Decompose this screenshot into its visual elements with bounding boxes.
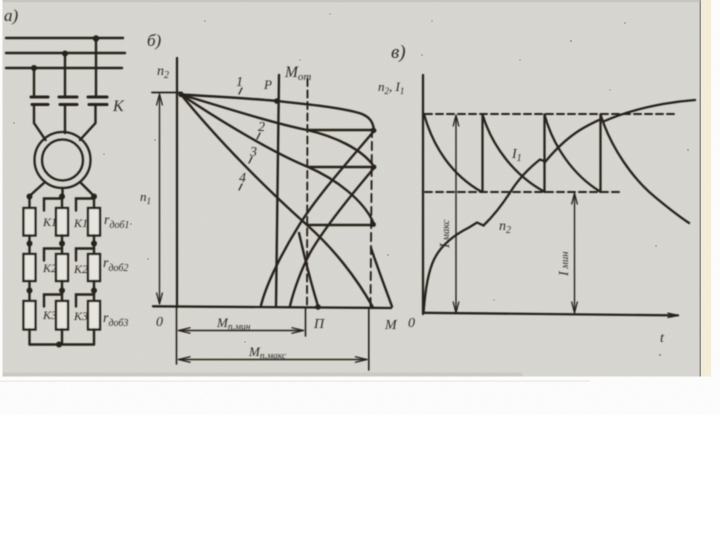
contact K3 left arm <box>44 295 62 307</box>
M p.max end bar <box>368 308 370 370</box>
svg-text:3: 3 <box>249 145 257 160</box>
current decay 4 final <box>601 115 690 224</box>
wire contact3 to motor <box>80 106 96 141</box>
wire node A1 to R1a <box>28 197 30 209</box>
dimension M p.min line <box>179 330 304 332</box>
scan right edge line <box>700 0 702 377</box>
wire R2b to node B3 <box>61 281 63 301</box>
junction dot knee1 <box>372 128 377 133</box>
wire phase B drop <box>64 54 66 96</box>
x-axis arrowhead t <box>668 313 678 317</box>
svg-text:Р: Р <box>263 77 272 92</box>
scan speckles <box>13 13 689 356</box>
svg-text:2: 2 <box>258 120 265 135</box>
node C1 <box>91 194 97 200</box>
dimension I min arrowhead up <box>572 193 578 204</box>
svg-text:а): а) <box>4 6 19 25</box>
dimension I min arrowhead down <box>572 302 578 313</box>
curve 3 rheostat characteristic <box>181 95 374 225</box>
node B1 <box>59 194 65 200</box>
curve 3 lower branch <box>299 233 318 306</box>
curve 4 rheostat characteristic <box>181 95 373 307</box>
current decay 1 <box>424 114 481 192</box>
dimension I max line <box>455 117 457 311</box>
resistor R2c <box>88 254 100 281</box>
dimension n1 line <box>159 96 161 302</box>
supply line L3 <box>6 67 122 69</box>
resistor R3b <box>56 301 68 330</box>
current decay 2 <box>483 115 545 192</box>
svg-text:0: 0 <box>408 316 415 331</box>
wire R3b to bus <box>61 330 63 345</box>
dashed line P (M p.min) <box>306 79 309 306</box>
contactor K contact 2 <box>59 97 77 105</box>
pointer tick 4 <box>239 184 242 190</box>
curve 1 natural characteristic <box>181 95 374 131</box>
svg-text:К3: К3 <box>42 308 57 322</box>
junction dot on L1 <box>93 35 99 41</box>
line Mot vertical <box>276 75 279 306</box>
pointer tick 1 <box>239 88 242 94</box>
junction dot knee3 <box>371 222 376 227</box>
motor M rotor circle <box>42 140 83 181</box>
node A1 <box>27 194 33 200</box>
axis n2 (y-axis of chart b) <box>176 58 178 307</box>
wire R1b to node B2 <box>61 236 63 255</box>
resistor R2b <box>56 254 68 281</box>
wire R2a to node A3 <box>28 281 30 301</box>
svg-text:К1: К1 <box>73 216 88 230</box>
svg-text:в): в) <box>391 42 406 63</box>
svg-text:М: М <box>384 318 398 333</box>
curve 1 lower branch <box>261 131 374 306</box>
resistor R2a <box>24 254 36 281</box>
node P axis dot <box>315 304 321 310</box>
bottom star bus <box>30 343 95 345</box>
svg-text:К2: К2 <box>42 261 57 275</box>
M p.min end bar <box>305 308 307 336</box>
dimension M p.max right arrowhead <box>356 357 368 363</box>
wire contact1 to motor <box>34 106 46 141</box>
jump H2 <box>309 166 375 168</box>
resistor R1c <box>88 208 100 236</box>
dimension n1 arrowhead up <box>157 94 163 105</box>
motor M stator circle <box>35 132 91 188</box>
dimension I max arrowhead up <box>453 115 459 126</box>
dimension M p.max left arrowhead <box>179 357 191 363</box>
dimension n1 arrowhead down <box>157 293 163 304</box>
dimension M p.min right arrowhead <box>292 328 304 334</box>
curve 2 lower branch <box>290 168 374 306</box>
wire node C1 to R1c <box>93 197 95 209</box>
scan bottom faint line <box>0 381 590 382</box>
jump H3 <box>308 224 374 226</box>
dimension I min line <box>574 195 576 311</box>
node A3 <box>27 288 33 294</box>
current jump 1 <box>481 115 483 193</box>
speed curve n2 rising <box>424 100 696 313</box>
node C3 <box>91 288 97 294</box>
junction dot on L3 <box>31 65 37 71</box>
wire R2c to node C3 <box>93 281 95 301</box>
wire R3c to bus <box>93 330 95 345</box>
svg-text:П: П <box>313 317 325 332</box>
resistor R1a <box>24 208 36 236</box>
current jump 2 <box>543 115 545 193</box>
pointer tick 2 <box>257 133 260 139</box>
svg-text:К2: К2 <box>73 262 88 276</box>
dimension I max arrowhead down <box>453 302 459 313</box>
svg-text:I мин: I мин <box>557 252 572 277</box>
scan top shade band <box>3 0 701 2</box>
current decay 3 <box>545 115 601 192</box>
svg-text:I макс: I макс <box>438 219 453 249</box>
node star point <box>56 342 62 348</box>
junction dot knee2 <box>372 165 377 170</box>
y-axis extension below x-axis <box>176 308 178 364</box>
contact K3 right arm <box>76 295 94 307</box>
wire motor to node A1 <box>30 182 46 196</box>
resistor R3a <box>24 301 36 330</box>
svg-text:б): б) <box>147 31 162 50</box>
supply line L1 <box>6 37 123 39</box>
node P dot <box>274 98 280 104</box>
current jump 3 <box>599 115 601 193</box>
axis n2,I1 (y-axis of chart v) <box>422 75 424 314</box>
wire R1c to node C2 <box>93 236 95 255</box>
wire R1a to node A2 <box>28 236 30 255</box>
dashed level I max <box>425 113 674 115</box>
node A2 <box>27 241 33 247</box>
jump H1 <box>309 129 375 131</box>
junction dot on L2 <box>62 51 68 57</box>
curve 4 lower tail <box>371 248 392 307</box>
contact K2 right arm <box>76 249 94 261</box>
wire phase C drop <box>95 39 97 96</box>
wire contact2 to motor <box>64 106 66 134</box>
resistor R1b <box>56 208 68 236</box>
svg-text:К3: К3 <box>73 309 88 323</box>
curve 2 rheostat characteristic <box>181 95 374 167</box>
wire phase A drop <box>33 68 35 96</box>
pointer tick 3 <box>249 157 252 163</box>
svg-text:К: К <box>112 98 125 115</box>
node C2 <box>91 241 97 247</box>
supply line L2 <box>6 52 125 54</box>
resistor R3c <box>88 301 100 330</box>
wire node B1 to R1b <box>61 197 63 209</box>
dimension M p.min left arrowhead <box>179 328 191 334</box>
dimension M p.max line <box>179 359 368 361</box>
dashed line M (M p.max) <box>371 129 373 306</box>
contact K2 left arm <box>44 249 62 261</box>
dashed level I min <box>425 191 622 193</box>
contact K1 left arm <box>44 199 62 211</box>
scan bottom shade band <box>3 373 523 377</box>
contact K1 right arm <box>76 199 94 211</box>
wire motor to node B1 <box>61 188 63 196</box>
axis M (x-axis of chart b) <box>153 306 391 308</box>
node S start blob <box>178 92 183 97</box>
tick n1 level <box>152 92 182 94</box>
scan cream strip <box>701 0 711 377</box>
node B2 <box>59 241 65 247</box>
node B3 <box>59 288 65 294</box>
contactor K contact 3 <box>88 97 107 105</box>
axis t (x-axis of chart v) <box>423 313 678 316</box>
svg-text:К1: К1 <box>42 215 57 229</box>
wire R3a to bus <box>28 330 30 345</box>
svg-text:0: 0 <box>156 315 163 330</box>
contactor K contact 1 <box>31 97 48 105</box>
wire motor to node C1 <box>80 182 94 196</box>
